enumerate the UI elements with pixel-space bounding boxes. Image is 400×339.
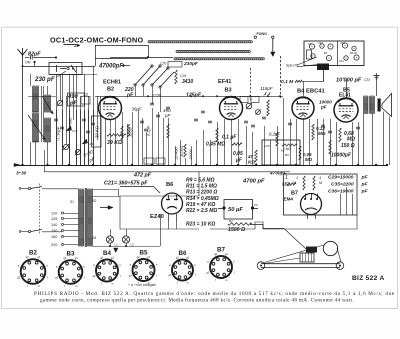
svg-text:0,1 M: 0,1 M <box>281 79 294 85</box>
svg-text:160: 160 <box>51 235 57 239</box>
caption line 2 <box>40 297 354 304</box>
svg-text:36pF: 36pF <box>132 107 142 112</box>
wire top left bus <box>22 62 96 67</box>
capacitor 0,1uF <box>144 125 151 136</box>
svg-text:B2: B2 <box>29 250 37 257</box>
wire 0,1M to connector <box>302 81 323 96</box>
dial pointer rail <box>257 262 344 270</box>
svg-text:g2: g2 <box>63 256 66 260</box>
arrow tuning L1 <box>28 115 46 140</box>
svg-text:g1: g1 <box>37 255 40 259</box>
svg-text:118pF: 118pF <box>260 86 274 91</box>
wire under box step <box>210 215 357 229</box>
svg-text:C36=10000: C36=10000 <box>328 189 354 195</box>
svg-text:g3: g3 <box>129 273 132 277</box>
wire caps drop <box>341 187 353 215</box>
connector block under inset <box>317 64 329 83</box>
svg-text:110: 110 <box>51 212 57 216</box>
svg-text:C41: C41 <box>339 59 344 63</box>
socket B2 <box>17 250 48 288</box>
capacitor 490pF padder <box>67 92 88 107</box>
wire EZ40 top <box>120 186 160 193</box>
tube U B3 EF41 <box>218 79 232 94</box>
svg-text:1 MΩ: 1 MΩ <box>283 147 291 151</box>
svg-text:R23 = 10 KΩ: R23 = 10 KΩ <box>186 222 215 228</box>
svg-text:pF: pF <box>361 175 369 181</box>
wire transformer top <box>45 150 119 196</box>
svg-text:B4 EBC41: B4 EBC41 <box>297 89 325 95</box>
wire antenna lead <box>22 55 24 165</box>
svg-text:B4: B4 <box>285 153 289 157</box>
label BIZ 522 A <box>352 275 385 282</box>
svg-text:B6: B6 <box>166 182 174 188</box>
caption line 1 <box>34 291 395 297</box>
switch link dashed <box>39 184 41 236</box>
capacitor C 50uF electrolytic <box>218 200 258 220</box>
ground bus <box>14 164 388 166</box>
svg-text:C28: C28 <box>264 144 270 148</box>
svg-text:g2: g2 <box>137 255 140 259</box>
capacitor 10000 mid <box>189 149 193 160</box>
svg-text:C5A: C5A <box>340 41 345 45</box>
capacitor 47000pF <box>98 64 130 70</box>
dial cord lines <box>264 229 341 264</box>
transformer labels <box>70 199 97 240</box>
svg-text:230 pF: 230 pF <box>34 76 55 83</box>
mains switch lower <box>19 230 62 233</box>
svg-text:3430: 3430 <box>182 79 193 85</box>
mains transformer T1 secondary <box>88 189 93 246</box>
svg-text:L1: L1 <box>115 243 119 247</box>
coil L4 <box>45 118 51 142</box>
capacitor 490pF box <box>68 93 85 106</box>
svg-text:82pF: 82pF <box>28 52 41 58</box>
svg-text:g2: g2 <box>176 255 179 259</box>
capacitor 4700 pF big <box>242 179 265 185</box>
svg-text:KΩ: KΩ <box>248 160 255 165</box>
svg-text:120Ω: 120Ω <box>128 127 133 137</box>
wire speaker top <box>337 79 362 98</box>
resistor R23 <box>186 219 252 228</box>
trimmer 12-490 mid <box>175 146 179 160</box>
resistor vert x268 <box>267 95 269 116</box>
svg-text:0,05: 0,05 <box>233 151 243 157</box>
resistor list R9-R23 <box>186 178 219 215</box>
resistor small verticals extra <box>121 124 331 154</box>
tube U B7 EM4 <box>284 191 322 220</box>
trimmer 3-30 pF slanted <box>82 149 96 163</box>
svg-text:C2: C2 <box>254 203 258 207</box>
svg-text:g1: g1 <box>186 255 189 259</box>
wire left verticals <box>31 110 94 165</box>
trimmer 3-30pF <box>56 126 61 141</box>
wire right verticals <box>318 112 390 166</box>
pilot lamp L2 <box>122 236 134 247</box>
capacitor small right <box>288 123 360 133</box>
resistor 1500 ohm <box>228 227 245 233</box>
svg-text:472 pF: 472 pF <box>133 173 152 179</box>
potentiometer 39K box <box>92 116 102 147</box>
resistor 150 ohm <box>341 143 355 149</box>
svg-text:47000pF: 47000pF <box>98 64 123 70</box>
svg-text:C24: C24 <box>180 74 186 78</box>
svg-text:4700 pF: 4700 pF <box>242 179 265 185</box>
resistor 0,12 M <box>312 124 326 140</box>
capacitor 472pF <box>133 173 152 179</box>
svg-text:R1: R1 <box>229 219 233 223</box>
tube U B6 EZ40 <box>150 182 183 222</box>
capacitor 0,05 uF <box>233 151 243 164</box>
svg-text:230pF: 230pF <box>183 61 199 67</box>
svg-text:1: 1 <box>285 175 288 181</box>
svg-text:pF: pF <box>320 105 327 110</box>
svg-text:39 KΩ: 39 KΩ <box>95 125 100 138</box>
svg-text:L2: L2 <box>131 243 135 247</box>
trimmer C14 <box>75 149 81 155</box>
svg-text:3÷30: 3÷30 <box>16 171 27 176</box>
svg-text:R22 = 2,5 MΩ: R22 = 2,5 MΩ <box>186 208 217 214</box>
coil L1 antenna <box>33 86 39 112</box>
resistor 39 K <box>107 134 126 146</box>
svg-text:g1: g1 <box>75 256 78 260</box>
svg-text:OM: OM <box>25 61 31 65</box>
capacitor C24 3430 <box>175 70 194 85</box>
trimmer C27 <box>256 110 261 115</box>
coil core lines <box>42 86 44 142</box>
svg-text:g1: g1 <box>111 255 114 259</box>
speaker LS <box>378 94 392 117</box>
tone network box <box>262 140 300 165</box>
resistor 1 M <box>282 175 296 188</box>
band label OC1-OC2-OMC-OM-FONO <box>50 36 144 47</box>
capacitor C29 10000 <box>328 175 368 181</box>
svg-text:BIZ 522 A: BIZ 522 A <box>352 275 385 282</box>
svg-text:FONO: FONO <box>257 32 268 36</box>
coil L3 <box>33 113 39 142</box>
svg-text:10'000 pF: 10'000 pF <box>336 78 362 84</box>
svg-text:M: M <box>293 181 296 185</box>
node FONO terminals <box>254 32 274 39</box>
svg-text:EZ40: EZ40 <box>150 214 164 220</box>
trimmer C6 <box>57 100 63 106</box>
capacitor 118pF <box>260 86 274 97</box>
resistor 0,45 M <box>206 142 242 148</box>
svg-text:EM4: EM4 <box>284 197 294 202</box>
svg-text:C34: C34 <box>364 78 370 82</box>
svg-text:B2: B2 <box>107 87 114 93</box>
arrow ground bus left <box>14 163 27 175</box>
svg-text:S2: S2 <box>93 199 97 203</box>
wire HT lines <box>183 196 219 228</box>
wire mid verticals <box>101 98 310 165</box>
svg-text:g2: g2 <box>100 255 103 259</box>
shielded wire to B4 <box>280 56 282 98</box>
arrow tuning L3 <box>42 96 54 114</box>
socket B7 <box>206 247 235 283</box>
svg-text:1: 1 <box>319 175 321 180</box>
capacitor 10000pF grid <box>319 100 332 110</box>
trimmer 12-490 <box>68 117 73 131</box>
trimmer C13 arrow <box>66 126 78 133</box>
junction dots mid line <box>202 95 281 97</box>
svg-text:OC1-OC2-OMC-OM-FONO: OC1-OC2-OMC-OM-FONO <box>50 36 144 45</box>
svg-text:ECH81: ECH81 <box>103 80 121 86</box>
switch wafer contacts <box>95 45 174 112</box>
svg-text:S1: S1 <box>70 200 74 204</box>
capacitor 0,1 uF B3 <box>222 135 237 141</box>
svg-text:g3: g3 <box>55 276 58 280</box>
svg-text:µF: µF <box>235 158 243 164</box>
capacitor C21 360-575pF <box>104 181 148 187</box>
wire osc horizontals <box>28 74 100 97</box>
svg-text:pF: pF <box>126 93 134 99</box>
svg-text:S4: S4 <box>93 236 97 240</box>
svg-text:EF41: EF41 <box>218 79 231 85</box>
svg-text:M: M <box>319 181 322 185</box>
capacitor C35 2200 <box>331 182 368 188</box>
wire osc verticals <box>57 66 101 165</box>
chain link row 2 <box>176 50 250 52</box>
shield dashed B3 <box>250 68 252 100</box>
trimmer box 33 <box>81 97 90 105</box>
wire mid horizontal y58 <box>95 58 148 60</box>
svg-text:12÷490: 12÷490 <box>175 146 179 160</box>
svg-text:B1 20: B1 20 <box>350 51 357 55</box>
dial pulley <box>323 241 337 255</box>
resistor 0,05 M <box>299 146 313 162</box>
wire AVC y172 <box>44 150 290 172</box>
capacitor 82pF <box>25 52 57 60</box>
capacitor 36pF <box>132 107 142 112</box>
svg-text:C21= 360÷575 pF: C21= 360÷575 pF <box>104 181 148 187</box>
mains transformer T1 primary <box>79 189 85 246</box>
wire bottom HT path <box>120 172 262 229</box>
svg-text:MΩ: MΩ <box>305 157 313 162</box>
resistor 120 ohm <box>127 124 132 137</box>
label box 120 <box>251 97 259 103</box>
magic eye box <box>284 174 358 215</box>
tuning knob block <box>300 247 317 263</box>
socket B4 <box>92 248 121 286</box>
socket B6 <box>168 250 196 285</box>
transformer taps <box>51 212 79 248</box>
svg-text:B2: B2 <box>324 51 328 55</box>
label box 118 <box>240 97 248 103</box>
wire heater bottom <box>93 245 161 247</box>
svg-text:g2: g2 <box>214 252 217 256</box>
trimmer location inset box <box>304 41 364 66</box>
capacitor 230pF <box>34 71 66 83</box>
capacitor C20 230pF <box>160 61 199 67</box>
svg-text:1238: 1238 <box>152 93 162 98</box>
svg-text:39 KΩ: 39 KΩ <box>107 140 122 146</box>
svg-text:pF: pF <box>361 189 369 195</box>
svg-text:C20: C20 <box>160 62 166 66</box>
tube U B4 EBC41 <box>297 89 325 95</box>
capacitor C22 <box>244 117 266 127</box>
svg-text:C40: C40 <box>318 41 323 45</box>
chain link row 3 <box>174 58 264 60</box>
socket B3 <box>55 251 86 288</box>
svg-text:125pF: 125pF <box>186 93 202 99</box>
svg-text:220: 220 <box>51 243 57 247</box>
dial cord step wire <box>250 225 284 229</box>
svg-text:gamme onde corte, compreso que: gamme onde corte, compreso quella per pe… <box>40 297 354 304</box>
wire arrow mid <box>100 206 113 210</box>
svg-text:10000: 10000 <box>189 149 193 160</box>
svg-text:140: 140 <box>51 223 57 227</box>
tube U B5 EL41 <box>339 88 351 99</box>
svg-text:g1: g1 <box>147 255 150 259</box>
tube U B2 ECH81 <box>103 80 121 93</box>
svg-text:150: 150 <box>51 229 57 233</box>
wire EZ40 leads <box>169 215 177 230</box>
svg-text:g2: g2 <box>26 255 29 259</box>
svg-text:125: 125 <box>51 217 57 221</box>
svg-text:+ a + non collegato: + a + non collegato <box>128 283 156 287</box>
capacitor 220pF <box>124 87 134 99</box>
capacitor 490pF mid <box>163 108 172 118</box>
svg-text:pF: pF <box>361 182 369 188</box>
trimmer C10 <box>63 144 69 150</box>
svg-text:PHILIPS RADIO - Mod. BIZ 522: PHILIPS RADIO - Mod. BIZ 522 A. Quattro … <box>34 291 395 297</box>
wire right of transformer <box>93 196 121 198</box>
resistor 0,68 M <box>339 128 355 143</box>
svg-text:C5: C5 <box>308 42 312 46</box>
mains transformer T1 core <box>86 188 87 247</box>
trimmer C26 <box>246 103 252 109</box>
svg-text:g3: g3 <box>206 270 209 274</box>
resistor 10 K vert <box>179 144 186 157</box>
wire mid horizontal y96 <box>95 95 283 97</box>
svg-text:C29=10000: C29=10000 <box>328 175 354 181</box>
svg-text:B3: B3 <box>225 88 232 94</box>
resistors 1M in box <box>293 175 322 190</box>
svg-text:10 KΩ: 10 KΩ <box>179 146 184 157</box>
svg-text:Spia OC: Spia OC <box>286 64 299 68</box>
socket B5 <box>129 250 158 286</box>
node 1238 <box>152 93 162 98</box>
ground near speaker <box>374 73 380 96</box>
coil L2 <box>45 95 51 112</box>
svg-text:8,2pF: 8,2pF <box>269 132 281 137</box>
wire fono arrow <box>271 38 275 56</box>
capacitor 8,2pF <box>269 132 281 137</box>
svg-text:C35=2200: C35=2200 <box>331 182 354 188</box>
trimmer C14 arrow <box>82 139 94 146</box>
svg-text:C14: C14 <box>88 142 94 146</box>
svg-text:g3: g3 <box>92 274 95 278</box>
svg-text:0,45 MΩ: 0,45 MΩ <box>206 142 225 148</box>
capacitor 10000pF cathode <box>331 153 352 159</box>
svg-text:g1: g1 <box>225 252 228 256</box>
svg-text:g3: g3 <box>17 275 20 279</box>
capacitor C36 10000 <box>328 189 368 195</box>
label box 18,2K <box>144 158 165 164</box>
chain link row 1 <box>148 41 252 43</box>
svg-text:R13 = 2200 Ω: R13 = 2200 Ω <box>186 190 217 196</box>
band switch box S <box>49 63 82 75</box>
wire heater verticals <box>111 214 161 246</box>
svg-text:50 µF: 50 µF <box>228 207 243 213</box>
capacitor 125pF <box>186 93 202 99</box>
svg-text:g3: g3 <box>168 273 171 277</box>
svg-text:1: 1 <box>296 175 298 180</box>
note non collegato <box>128 283 156 287</box>
svg-text:10000pF: 10000pF <box>331 153 352 159</box>
svg-text:1500 Ω: 1500 Ω <box>228 227 245 233</box>
capacitor 4700pF small <box>269 171 288 177</box>
mains switch upper <box>19 187 78 190</box>
node OM terminal <box>25 61 36 65</box>
label Spia OC <box>286 57 322 68</box>
svg-text:B3: B3 <box>67 251 75 258</box>
capacitor small between B2 B3 <box>140 103 212 123</box>
antenna <box>18 48 28 57</box>
svg-text:MΩ: MΩ <box>347 137 355 143</box>
resistor 47 K <box>247 150 257 165</box>
capacitor 10000 pF top <box>336 78 370 84</box>
svg-text:MΩ: MΩ <box>318 131 326 136</box>
resistor 0,1 M <box>281 79 302 85</box>
output transformer T2 <box>364 96 375 114</box>
capacitor C8 <box>54 119 95 133</box>
pilot lamp L1 <box>106 236 118 247</box>
